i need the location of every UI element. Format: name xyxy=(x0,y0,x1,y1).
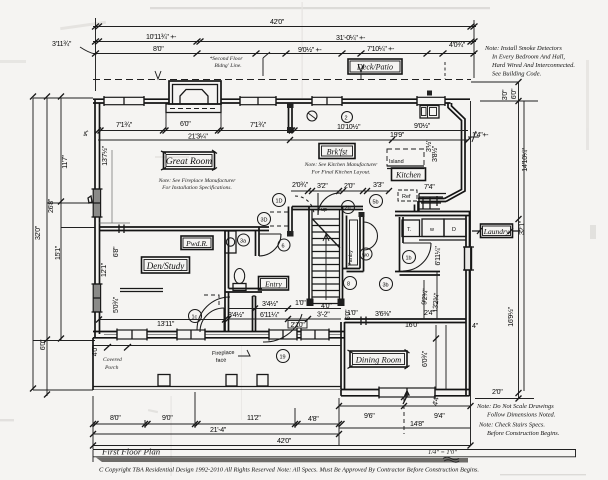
svg-text:9'4": 9'4" xyxy=(434,412,445,420)
svg-text:Ref: Ref xyxy=(402,194,411,200)
dining dims hw xyxy=(344,288,479,407)
kitchen corner counters xyxy=(419,194,446,212)
powder toilet xyxy=(233,269,246,291)
svg-text:face: face xyxy=(216,357,227,364)
svg-text:Bldng' Line.: Bldng' Line. xyxy=(214,63,241,69)
svg-text:1c: 1c xyxy=(192,315,198,321)
svg-text:21'3¼": 21'3¼" xyxy=(188,133,208,141)
svg-text:9'0": 9'0" xyxy=(162,414,173,422)
symbol circle 1c xyxy=(189,310,202,323)
svg-text:2'0": 2'0" xyxy=(344,182,355,190)
entry label box xyxy=(259,277,289,291)
title band lines xyxy=(93,450,576,463)
window top wall W1 xyxy=(104,96,144,106)
window bottom wall B2 xyxy=(177,329,205,341)
symbol circle wd xyxy=(360,248,372,260)
svg-text:11'7": 11'7" xyxy=(61,154,69,168)
left dimension line 11'7" / 15'1" xyxy=(54,94,69,342)
svg-text:7'1¾": 7'1¾" xyxy=(250,121,267,129)
symbol circle 8 xyxy=(344,277,357,290)
svg-text:16'9½": 16'9½" xyxy=(507,306,515,326)
den rotated dims xyxy=(91,246,228,356)
note check stairs xyxy=(478,422,560,438)
laundry label box xyxy=(472,224,520,238)
symbol circle 2b xyxy=(342,201,355,214)
great room dim row xyxy=(95,120,471,143)
symbol circle 5b xyxy=(370,195,383,208)
deck/patio label box xyxy=(348,59,402,79)
stair shaft walls xyxy=(292,207,363,306)
svg-text:For Installation Specification: For Installation Specifications. xyxy=(161,184,232,191)
svg-text:Note: See Fireplace Manufactu: Note: See Fireplace Manufacturer xyxy=(158,177,237,184)
svg-text:1/4" = 1'0": 1/4" = 1'0" xyxy=(428,449,457,456)
svg-text:4'0": 4'0" xyxy=(91,345,99,356)
stair diagonal + up arrow xyxy=(313,207,341,300)
bottom dim row 3 (42'0") xyxy=(90,437,474,449)
svg-text:Laundry: Laundry xyxy=(483,227,510,236)
refrigerator dashed xyxy=(398,190,417,201)
window bottom wall B3 xyxy=(269,329,297,341)
svg-text:2: 2 xyxy=(345,116,348,122)
svg-text:2'0¾": 2'0¾" xyxy=(292,181,309,189)
svg-text:3D: 3D xyxy=(261,218,268,224)
svg-text:First Floor Plan: First Floor Plan xyxy=(101,447,161,457)
right house wall (laundry/dining) xyxy=(466,212,470,397)
symbol circle 2 kitchen xyxy=(342,112,353,123)
title shadow bar xyxy=(96,458,468,463)
den/study label box xyxy=(142,257,190,273)
svg-text:7'4": 7'4" xyxy=(424,183,435,191)
svg-text:32'0": 32'0" xyxy=(34,225,42,240)
svg-text:13'11": 13'11" xyxy=(157,320,175,328)
symbol circle 19 porch xyxy=(277,350,290,363)
kitchen window top wall xyxy=(417,91,445,107)
smoke detector note xyxy=(484,45,575,78)
svg-text:Hard Wired And Interconnected.: Hard Wired And Interconnected. xyxy=(491,62,575,69)
svg-text:C Copyright TBA Residential De: C Copyright TBA Residential Design 1992-… xyxy=(99,467,276,474)
svg-text:16'0": 16'0" xyxy=(405,321,420,329)
bottom dim row 2 (21'4") xyxy=(90,426,342,437)
svg-text:3'4½": 3'4½" xyxy=(262,300,279,308)
pantry door arcs xyxy=(364,222,378,250)
powder sink counter xyxy=(225,231,236,253)
pwd.r. label box xyxy=(181,236,213,250)
dining top wall xyxy=(345,319,467,323)
svg-text:Note: All Specs. Must Be Appr: Note: All Specs. Must Be Approved By Con… xyxy=(276,467,479,474)
porch post P3 xyxy=(257,375,268,387)
svg-text:T.: T. xyxy=(407,227,412,233)
svg-text:6'11¼": 6'11¼" xyxy=(434,246,442,266)
svg-text:up: up xyxy=(321,207,327,213)
svg-text:3'6⅜": 3'6⅜" xyxy=(375,310,392,318)
svg-text:42'0": 42'0" xyxy=(270,18,285,26)
svg-text:D: D xyxy=(452,227,456,233)
symbol circle 3b xyxy=(380,278,393,291)
left wall lower stub to porch xyxy=(92,338,94,390)
svg-text:7'10¼" +-: 7'10¼" +- xyxy=(367,45,395,53)
top exterior wall xyxy=(93,99,470,103)
front door arc left xyxy=(197,297,230,330)
svg-text:Follow Dimensions Noted.: Follow Dimensions Noted. xyxy=(486,412,556,419)
svg-text:3'11¾": 3'11¾" xyxy=(52,40,72,48)
svg-text:Pantry: Pantry xyxy=(348,250,354,266)
svg-text:8'0": 8'0" xyxy=(153,45,164,53)
svg-text:6: 6 xyxy=(282,244,285,250)
window top wall W2 xyxy=(240,96,276,106)
laundry appliance shelf xyxy=(402,219,466,240)
powder room walls xyxy=(225,227,262,292)
kitchen note xyxy=(304,161,378,176)
svg-text:Note: Check Stairs Specs.: Note: Check Stairs Specs. xyxy=(478,422,545,429)
kitchen island dashed xyxy=(387,149,424,169)
svg-text:7'1¾": 7'1¾" xyxy=(116,121,133,129)
svg-text:3'3": 3'3" xyxy=(373,181,384,189)
svg-text:42'0": 42'0" xyxy=(277,437,292,445)
porch tick xyxy=(104,344,131,351)
svg-text:6'0": 6'0" xyxy=(510,88,518,99)
kitchen hw dims xyxy=(424,131,489,191)
great room / den wall xyxy=(100,225,270,234)
svg-text:32'1": 32'1" xyxy=(518,220,526,235)
svg-text:31'-0¼" +-: 31'-0¼" +- xyxy=(336,34,366,42)
svg-text:6'0¾": 6'0¾" xyxy=(421,350,429,367)
svg-text:Before Construction Begins.: Before Construction Begins. xyxy=(487,430,560,437)
svg-text:11'2": 11'2" xyxy=(247,414,261,422)
dimension line row 2 xyxy=(92,33,478,45)
svg-text:4": 4" xyxy=(472,322,479,330)
fireplace note xyxy=(158,177,237,191)
ceiling fan symbol great room xyxy=(307,111,317,121)
svg-text:Note: Install Smoke Detectors: Note: Install Smoke Detectors xyxy=(484,45,562,52)
great room label box xyxy=(161,150,217,171)
right dim vertical B xyxy=(523,101,525,391)
entry hall dims xyxy=(225,299,341,322)
svg-text:Note: See Kitchen Manufacture: Note: See Kitchen Manufacturer xyxy=(304,161,378,168)
den door arc xyxy=(200,308,224,332)
svg-text:For Final Kitchen Layout.: For Final Kitchen Layout. xyxy=(310,170,370,176)
dimension line 42'0" top xyxy=(92,18,478,91)
dimension line row 3 xyxy=(92,41,478,57)
svg-text:In Every Bedroom And Hall,: In Every Bedroom And Hall, xyxy=(491,54,565,61)
kitchen bay wall right xyxy=(415,103,466,212)
svg-text:8'0": 8'0" xyxy=(110,414,121,422)
svg-text:4'8": 4'8" xyxy=(308,415,319,423)
window bottom wall B1 xyxy=(117,329,147,341)
svg-text:2b: 2b xyxy=(345,206,351,212)
dining wing bottom wall xyxy=(341,390,470,396)
svg-text:4'0¾": 4'0¾" xyxy=(449,41,466,49)
svg-text:5b: 5b xyxy=(373,200,379,206)
svg-text:9'6": 9'6" xyxy=(364,412,375,420)
svg-text:6'0": 6'0" xyxy=(344,309,352,320)
svg-text:19'9": 19'9" xyxy=(390,131,405,139)
stair newels xyxy=(307,299,314,307)
dining cased opening ticks xyxy=(361,317,366,326)
mudroom wall xyxy=(395,217,440,275)
porch post P2 xyxy=(226,375,237,387)
bottom exterior wall xyxy=(93,332,344,338)
svg-text:Entry: Entry xyxy=(264,280,282,289)
den desk lines xyxy=(120,289,163,292)
svg-text:8: 8 xyxy=(347,282,350,288)
window top wall W3 xyxy=(312,96,342,106)
svg-text:4'0": 4'0" xyxy=(321,302,332,310)
svg-text:Great Room: Great Room xyxy=(166,157,212,167)
left exterior wall xyxy=(95,99,100,338)
svg-text:14'10¼": 14'10¼" xyxy=(521,148,529,172)
mud room rotated dims xyxy=(425,139,442,265)
window left wall great room xyxy=(88,189,103,217)
dining room label box xyxy=(348,350,410,370)
left dimension line 26'8" / 6'0" xyxy=(39,94,55,398)
window left wall den xyxy=(92,284,103,312)
svg-text:Fireplace: Fireplace xyxy=(212,350,235,357)
svg-text:6'0": 6'0" xyxy=(180,120,191,128)
svg-text:Brk'fst: Brk'fst xyxy=(327,148,349,157)
svg-text:9'0½" +-: 9'0½" +- xyxy=(298,46,322,54)
bottom dim row 1 xyxy=(90,414,345,427)
svg-text:21'-4": 21'-4" xyxy=(210,426,227,434)
svg-text:3'0": 3'0" xyxy=(501,89,509,100)
scale text xyxy=(428,449,459,462)
dining left wall xyxy=(341,322,345,396)
mudroom door arc xyxy=(403,243,431,271)
svg-text:3'-2": 3'-2" xyxy=(317,311,330,319)
porch floor edge xyxy=(93,346,341,390)
svg-text:*Second Floor: *Second Floor xyxy=(209,56,243,62)
kitchen sink box xyxy=(420,106,439,119)
symbol circle 3a xyxy=(238,234,250,246)
svg-text:19: 19 xyxy=(280,355,286,361)
note do not scale xyxy=(476,403,556,419)
svg-text:1b: 1b xyxy=(406,256,412,262)
svg-text:3a: 3a xyxy=(240,239,247,245)
svg-text:Covered: Covered xyxy=(103,357,122,363)
entry west wall below powder xyxy=(225,292,256,332)
left dimension line 32'0" xyxy=(30,94,42,392)
pantry walls xyxy=(343,212,365,272)
svg-text:Den/Study: Den/Study xyxy=(146,261,185,271)
svg-text:3'2": 3'2" xyxy=(317,182,328,190)
dining bottom window xyxy=(379,387,435,399)
stair bottom dims xyxy=(317,302,392,319)
svg-text:2'10": 2'10" xyxy=(291,321,306,329)
svg-text:12'1": 12'1" xyxy=(100,262,108,277)
door right wall xyxy=(463,247,474,270)
symbol circle 1D xyxy=(273,194,286,207)
right dim ticks top xyxy=(471,82,538,101)
svg-text:Dining Room: Dining Room xyxy=(355,355,402,365)
bottom extension verticals xyxy=(93,101,471,449)
fireplace F1 xyxy=(166,81,221,129)
svg-text:Deck/Patio: Deck/Patio xyxy=(356,63,393,72)
svg-text:Kitchen: Kitchen xyxy=(395,171,421,180)
svg-text:15'1": 15'1" xyxy=(54,245,62,260)
svg-text:1'0": 1'0" xyxy=(295,299,306,307)
svg-text:26'8": 26'8" xyxy=(47,198,55,213)
symbol circle 6 xyxy=(278,239,290,251)
svg-text:10'11¾" +-: 10'11¾" +- xyxy=(146,33,177,41)
left dim extension ticks xyxy=(33,98,95,390)
svg-text:2'0": 2'0" xyxy=(492,388,503,396)
great room inner line xyxy=(100,150,131,223)
entry north wall / hall closet xyxy=(270,207,294,237)
window bottom wall B4 xyxy=(301,329,329,341)
dim label 3'11 3/4" with leader xyxy=(52,40,96,55)
svg-text:3'4½": 3'4½" xyxy=(228,311,245,319)
svg-text:Note: Do Not Scale Drawings: Note: Do Not Scale Drawings xyxy=(476,403,554,410)
symbol circle 1b xyxy=(403,251,416,264)
svg-text:14'8": 14'8" xyxy=(410,420,425,428)
svg-text:3b: 3b xyxy=(383,283,389,289)
svg-text:10'10½": 10'10½" xyxy=(337,123,361,131)
breakfast hall dim row xyxy=(291,181,392,194)
svg-text:Porch: Porch xyxy=(104,365,119,371)
breakfast label box xyxy=(319,144,355,159)
svg-text:wo: wo xyxy=(361,253,369,259)
right dim bottom 2'0" xyxy=(475,388,534,402)
dining hall dim line xyxy=(291,272,446,390)
svg-text:Island: Island xyxy=(389,159,404,165)
svg-text:9'2¾": 9'2¾" xyxy=(420,288,429,305)
hall arcs below breakfast xyxy=(295,196,314,215)
svg-text:5'0¾": 5'0¾" xyxy=(112,296,120,313)
svg-text:See Building Code.: See Building Code. xyxy=(492,71,542,78)
second floor note xyxy=(209,56,243,69)
right dim vertical A xyxy=(507,79,529,399)
svg-text:13'7½": 13'7½" xyxy=(101,145,109,165)
svg-text:3'½": 3'½" xyxy=(425,139,433,152)
great room east opening columns xyxy=(287,103,294,133)
second floor building line (dashed) xyxy=(93,52,471,80)
covered porch label xyxy=(103,357,122,371)
symbol circle 3D xyxy=(258,213,271,226)
svg-text:Pwd.R.: Pwd.R. xyxy=(185,239,208,248)
powder door arc xyxy=(259,234,281,256)
fireplace face note hw xyxy=(212,350,250,364)
stair treads xyxy=(312,219,340,304)
boxed 2'10 xyxy=(288,321,307,330)
svg-text:w: w xyxy=(429,227,434,233)
kitchen label box xyxy=(392,168,426,181)
porch post P1 xyxy=(158,375,170,387)
closet dashed under stairs xyxy=(204,295,219,308)
kitchen bottom wall xyxy=(395,212,470,216)
dining bottom dim row xyxy=(336,391,474,428)
svg-text:1D: 1D xyxy=(276,199,283,205)
svg-text:6'11¼": 6'11¼" xyxy=(260,311,280,319)
front door arc right xyxy=(263,314,302,342)
svg-text:6'8": 6'8" xyxy=(112,246,120,257)
svg-text:9'0½": 9'0½" xyxy=(414,122,431,130)
